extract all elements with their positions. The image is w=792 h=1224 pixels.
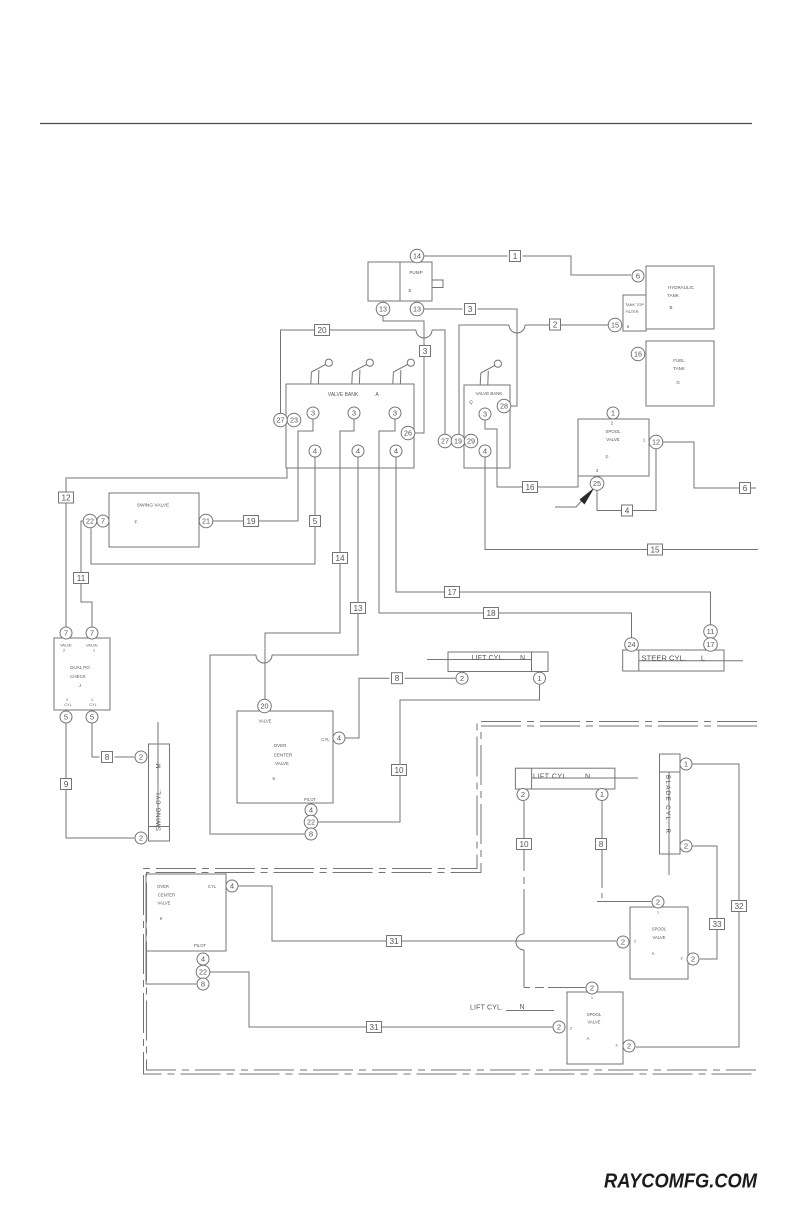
svg-text:4: 4 (337, 734, 341, 743)
svg-text:VALVE: VALVE (275, 761, 289, 766)
svg-text:20: 20 (317, 326, 327, 335)
svg-text:24: 24 (628, 640, 636, 649)
svg-text:A: A (587, 1036, 590, 1041)
svg-text:CYL: CYL (89, 703, 96, 707)
svg-text:1: 1 (611, 409, 615, 418)
svg-text:1: 1 (513, 252, 518, 261)
svg-text:4: 4 (483, 447, 487, 456)
svg-text:PILOT: PILOT (304, 797, 317, 802)
svg-text:14: 14 (413, 252, 421, 261)
svg-text:6: 6 (743, 484, 748, 493)
svg-text:4: 4 (394, 447, 398, 456)
svg-text:N: N (519, 1004, 524, 1011)
svg-text:VALVE: VALVE (653, 935, 666, 940)
svg-text:SWING VALVE: SWING VALVE (137, 503, 169, 509)
svg-text:LIFT CYL.: LIFT CYL. (472, 655, 505, 662)
svg-text:K: K (160, 916, 163, 921)
svg-text:9: 9 (64, 780, 69, 789)
svg-text:10: 10 (394, 766, 404, 775)
svg-text:2: 2 (590, 984, 594, 993)
svg-text:2: 2 (63, 649, 65, 653)
svg-text:SPOOL: SPOOL (587, 1012, 602, 1017)
svg-text:LIFT CYL.: LIFT CYL. (533, 773, 569, 780)
svg-text:3: 3 (423, 347, 428, 356)
svg-text:3: 3 (352, 409, 356, 418)
svg-text:27: 27 (277, 416, 285, 425)
svg-text:3: 3 (468, 305, 473, 314)
svg-text:6: 6 (636, 272, 640, 281)
svg-text:CYL: CYL (64, 703, 71, 707)
svg-text:26: 26 (404, 429, 412, 438)
svg-text:K: K (272, 776, 275, 781)
svg-text:16: 16 (634, 350, 642, 359)
svg-text:8: 8 (105, 753, 110, 762)
svg-text:19: 19 (246, 517, 256, 526)
svg-text:LIFT CYL.: LIFT CYL. (470, 1004, 503, 1011)
svg-text:Q: Q (469, 400, 473, 405)
svg-text:2: 2 (460, 674, 464, 683)
svg-text:14: 14 (335, 554, 345, 563)
svg-text:7: 7 (90, 629, 94, 638)
svg-text:1: 1 (91, 698, 93, 702)
svg-text:OVER: OVER (274, 743, 288, 748)
svg-text:33: 33 (712, 920, 722, 929)
svg-text:B: B (627, 324, 630, 329)
svg-text:VALVE BANK: VALVE BANK (328, 392, 359, 398)
svg-text:2: 2 (656, 898, 660, 907)
svg-text:CYL: CYL (321, 737, 330, 742)
svg-text:32: 32 (734, 902, 744, 911)
svg-text:B: B (669, 305, 672, 310)
svg-text:3: 3 (311, 409, 315, 418)
svg-text:VALVE: VALVE (259, 719, 272, 724)
svg-text:2: 2 (553, 321, 558, 330)
svg-text:5: 5 (90, 713, 94, 722)
svg-text:12: 12 (61, 494, 71, 503)
svg-text:15: 15 (611, 321, 619, 330)
svg-text:31: 31 (389, 937, 399, 946)
svg-text:RAYCOMFG.COM: RAYCOMFG.COM (604, 1170, 758, 1193)
svg-text:R: R (664, 829, 671, 834)
svg-text:28: 28 (500, 402, 508, 411)
svg-text:CENTER: CENTER (158, 893, 175, 898)
svg-text:CENTER: CENTER (274, 753, 293, 758)
svg-text:12: 12 (652, 438, 660, 447)
svg-text:CYL: CYL (208, 884, 217, 889)
svg-text:2: 2 (691, 955, 695, 964)
svg-text:3: 3 (393, 409, 397, 418)
svg-text:11: 11 (707, 627, 714, 636)
svg-text:5: 5 (64, 713, 68, 722)
svg-text:22: 22 (86, 517, 94, 526)
svg-text:BLADE CYL.: BLADE CYL. (664, 775, 671, 823)
svg-text:SPOOL: SPOOL (652, 927, 667, 932)
svg-text:G: G (676, 380, 680, 385)
svg-text:16: 16 (525, 483, 535, 492)
svg-text:4: 4 (309, 806, 313, 815)
svg-text:TANK TOP: TANK TOP (625, 302, 644, 307)
svg-text:P: P (606, 455, 609, 460)
svg-text:A: A (652, 951, 655, 956)
svg-text:2: 2 (621, 938, 625, 947)
svg-text:25: 25 (593, 479, 601, 488)
svg-text:VALVE: VALVE (86, 644, 98, 648)
svg-text:2: 2 (521, 790, 525, 799)
svg-text:VALVE: VALVE (60, 644, 72, 648)
svg-text:13: 13 (353, 604, 363, 613)
svg-text:3: 3 (483, 410, 487, 419)
svg-text:22: 22 (199, 968, 207, 977)
svg-text:1: 1 (537, 674, 541, 683)
svg-text:2: 2 (66, 698, 68, 702)
svg-text:22: 22 (307, 818, 315, 827)
svg-text:11: 11 (77, 574, 86, 583)
svg-text:TANK: TANK (667, 293, 679, 298)
svg-text:F: F (135, 520, 138, 526)
svg-text:DUAL PO: DUAL PO (70, 665, 90, 670)
svg-text:1: 1 (600, 790, 604, 799)
svg-text:E: E (408, 288, 411, 293)
svg-text:M: M (156, 763, 163, 768)
svg-text:7: 7 (101, 517, 105, 526)
svg-text:21: 21 (202, 517, 210, 526)
svg-text:8: 8 (395, 674, 400, 683)
svg-text:19: 19 (454, 437, 462, 446)
svg-text:31: 31 (369, 1023, 379, 1032)
svg-text:13: 13 (413, 305, 421, 314)
svg-text:23: 23 (290, 416, 298, 425)
svg-text:10: 10 (519, 840, 529, 849)
svg-text:5: 5 (313, 517, 318, 526)
svg-text:4: 4 (313, 447, 317, 456)
svg-text:PILOT: PILOT (194, 943, 207, 948)
svg-text:4: 4 (230, 882, 234, 891)
svg-text:TANK: TANK (673, 366, 685, 371)
svg-text:2: 2 (139, 753, 143, 762)
svg-text:PUMP: PUMP (409, 270, 422, 275)
svg-text:20: 20 (261, 702, 269, 711)
svg-text:L: L (701, 654, 705, 663)
svg-text:15: 15 (650, 546, 660, 555)
svg-text:HYDRAULIC: HYDRAULIC (668, 285, 695, 290)
svg-text:CHECK: CHECK (70, 674, 86, 679)
svg-text:FUEL: FUEL (673, 358, 685, 363)
svg-text:2: 2 (139, 834, 143, 843)
svg-text:2: 2 (627, 1042, 631, 1051)
svg-text:29: 29 (467, 437, 475, 446)
svg-text:N: N (585, 773, 590, 780)
svg-text:8: 8 (599, 840, 604, 849)
svg-text:4: 4 (201, 955, 205, 964)
svg-text:7: 7 (64, 629, 68, 638)
svg-text:J: J (79, 683, 81, 688)
svg-text:STEER CYL.: STEER CYL. (642, 654, 687, 663)
svg-text:OVER: OVER (157, 884, 169, 889)
svg-text:4: 4 (356, 447, 360, 456)
svg-text:2: 2 (557, 1023, 561, 1032)
svg-text:FILTER: FILTER (625, 309, 638, 314)
svg-text:VALVE: VALVE (606, 437, 620, 442)
svg-text:VALVE: VALVE (158, 901, 171, 906)
svg-text:N: N (520, 655, 525, 662)
svg-text:17: 17 (447, 588, 457, 597)
svg-text:VALVE BANK: VALVE BANK (476, 391, 503, 396)
svg-text:27: 27 (441, 437, 449, 446)
svg-text:18: 18 (486, 609, 496, 618)
svg-text:SWING CYL.: SWING CYL. (156, 789, 163, 831)
svg-text:1: 1 (684, 760, 688, 769)
svg-text:1: 1 (93, 649, 95, 653)
svg-text:SPOOL: SPOOL (605, 429, 621, 434)
svg-text:8: 8 (309, 830, 313, 839)
svg-text:2: 2 (684, 842, 688, 851)
svg-text:8: 8 (201, 980, 205, 989)
svg-text:17: 17 (707, 640, 715, 649)
svg-text:13: 13 (379, 305, 387, 314)
svg-text:4: 4 (625, 507, 630, 516)
svg-text:VALVE: VALVE (588, 1020, 601, 1025)
